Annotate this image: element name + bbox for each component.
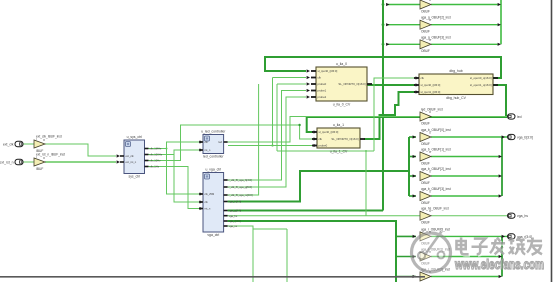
svg-text:r_clk_R_vga_g[5:0]: r_clk_R_vga_g[5:0] bbox=[228, 185, 252, 189]
svg-text:vga_b_OBUF[1]_inst: vga_b_OBUF[1]_inst bbox=[421, 148, 451, 152]
svg-text:rst_n: rst_n bbox=[205, 148, 211, 152]
svg-text:sys_ctrl: sys_ctrl bbox=[129, 175, 141, 179]
svg-text:IBUF: IBUF bbox=[36, 167, 43, 171]
svg-text:r_clk_R_vga_h[4:0]: r_clk_R_vga_h[4:0] bbox=[228, 178, 252, 182]
svg-text:u_led_controller: u_led_controller bbox=[201, 130, 226, 134]
svg-text:OBUF: OBUF bbox=[421, 30, 430, 34]
svg-text:OBUF: OBUF bbox=[421, 221, 430, 225]
svg-text:led: led bbox=[219, 140, 223, 144]
svg-text:O: O bbox=[429, 0, 431, 2]
svg-text:www.elecfans.com: www.elecfans.com bbox=[454, 257, 544, 272]
svg-text:ext_clk_IBUF_inst: ext_clk_IBUF_inst bbox=[36, 135, 62, 139]
svg-text:u_ila_0: u_ila_0 bbox=[336, 62, 347, 66]
svg-text:r_clk_R_vga_m[3:0]: r_clk_R_vga_m[3:0] bbox=[228, 193, 252, 197]
svg-text:rst_n: rst_n bbox=[205, 207, 211, 211]
svg-text:vga_hs: vga_hs bbox=[517, 214, 528, 218]
svg-text:led_controller: led_controller bbox=[203, 155, 224, 159]
svg-text:probe0: probe0 bbox=[319, 144, 328, 148]
svg-text:vga_b_OBUF[2]_inst: vga_b_OBUF[2]_inst bbox=[421, 167, 451, 171]
svg-text:clk_100Hz: clk_100Hz bbox=[150, 153, 163, 157]
svg-text:vga_b_OBUF[0]_inst: vga_b_OBUF[0]_inst bbox=[421, 128, 451, 132]
svg-text:clk_10Hz: clk_10Hz bbox=[150, 159, 162, 163]
svg-text:clk: clk bbox=[319, 137, 323, 141]
svg-text:OBUF: OBUF bbox=[421, 181, 430, 185]
svg-text:vga_b_OBUF[3]_inst: vga_b_OBUF[3]_inst bbox=[421, 187, 451, 191]
svg-text:led_OBUF_inst: led_OBUF_inst bbox=[421, 108, 443, 112]
svg-text:u_ila_0_CV: u_ila_0_CV bbox=[333, 102, 351, 106]
svg-text:vga_g[3:0]: vga_g[3:0] bbox=[229, 209, 242, 213]
svg-text:ext_rst_n: ext_rst_n bbox=[0, 160, 14, 164]
svg-text:OBUF: OBUF bbox=[421, 49, 430, 53]
svg-text:vga_g_OBUF[3]_inst: vga_g_OBUF[3]_inst bbox=[421, 35, 451, 39]
svg-text:ext_clk: ext_clk bbox=[3, 142, 14, 146]
svg-text:clk_25M: clk_25M bbox=[205, 192, 215, 196]
svg-text:u_ila_1: u_ila_1 bbox=[333, 123, 344, 127]
svg-text:ext_rst_n_IBUF_inst: ext_rst_n_IBUF_inst bbox=[36, 153, 65, 157]
svg-text:vga_vs: vga_vs bbox=[229, 225, 238, 228]
svg-text:OBUF: OBUF bbox=[421, 121, 430, 125]
svg-text:clk: clk bbox=[421, 76, 425, 80]
svg-text:probe1: probe1 bbox=[318, 89, 327, 93]
svg-text:OBUF: OBUF bbox=[421, 9, 430, 13]
svg-text:clk: clk bbox=[318, 76, 322, 80]
svg-text:clk_1MHz: clk_1MHz bbox=[150, 147, 162, 151]
svg-text:OBUF: OBUF bbox=[421, 142, 430, 146]
svg-text:sl_iport0_i[36:0]: sl_iport0_i[36:0] bbox=[319, 130, 339, 134]
svg-text:SL_OPORT0_O[16:0]: SL_OPORT0_O[16:0] bbox=[331, 137, 358, 141]
svg-text:vga_g_OBUF[2]_inst: vga_g_OBUF[2]_inst bbox=[421, 16, 451, 20]
svg-text:dbg_hub_CV: dbg_hub_CV bbox=[446, 96, 467, 100]
svg-text:OBUF: OBUF bbox=[421, 161, 430, 165]
svg-text:vga_hs: vga_hs bbox=[229, 214, 238, 218]
svg-text:sl_oport1_o[16:0]: sl_oport1_o[16:0] bbox=[470, 83, 492, 87]
svg-text:ext_clk: ext_clk bbox=[126, 154, 135, 158]
svg-text:probe0: probe0 bbox=[318, 82, 327, 86]
svg-text:vga_r[3:0]: vga_r[3:0] bbox=[229, 219, 241, 223]
svg-text:vga_b[3:0]: vga_b[3:0] bbox=[517, 135, 533, 139]
svg-text:sl_iport1_i[36:0]: sl_iport1_i[36:0] bbox=[421, 90, 441, 94]
svg-text:sl_oport0_o[16:0]: sl_oport0_o[16:0] bbox=[470, 76, 492, 80]
svg-text:OBUF: OBUF bbox=[421, 201, 430, 205]
svg-text:probe2: probe2 bbox=[318, 95, 327, 99]
svg-text:ext_rst_n: ext_rst_n bbox=[126, 160, 137, 164]
svg-text:clk_1Hz: clk_1Hz bbox=[150, 165, 160, 169]
svg-text:vga_hs_OBUF_inst: vga_hs_OBUF_inst bbox=[421, 207, 449, 211]
svg-text:vga_b[3:0]: vga_b[3:0] bbox=[229, 200, 242, 204]
svg-text:u_vga_ctrl: u_vga_ctrl bbox=[205, 168, 221, 172]
svg-text:dbg_hub: dbg_hub bbox=[449, 69, 462, 73]
svg-text:vga_ctrl: vga_ctrl bbox=[207, 233, 219, 237]
svg-text:vga_r_OBUF[0]_inst: vga_r_OBUF[0]_inst bbox=[421, 227, 450, 231]
svg-text:u_sys_ctrl: u_sys_ctrl bbox=[127, 135, 143, 139]
svg-text:led: led bbox=[517, 115, 522, 119]
svg-text:sl_iport0_i[36:0]: sl_iport0_i[36:0] bbox=[421, 83, 441, 87]
svg-text:SL_OPORT0_O[16:0]: SL_OPORT0_O[16:0] bbox=[338, 82, 365, 86]
svg-text:u_ila_1_CV: u_ila_1_CV bbox=[330, 149, 348, 153]
svg-text:sl_iport0_i[36:0]: sl_iport0_i[36:0] bbox=[318, 69, 338, 73]
